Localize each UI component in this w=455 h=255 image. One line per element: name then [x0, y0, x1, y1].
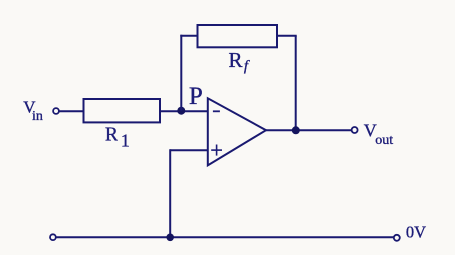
wire R1 to op-amp inverting input [160, 110, 208, 112]
svg-text:R: R [105, 124, 118, 145]
resistor R1 [84, 99, 161, 122]
wire op-amp output to Vout [265, 129, 352, 131]
resistor Rf [198, 25, 278, 47]
node Vin label [23, 98, 43, 124]
label Rf [229, 48, 250, 75]
op-amp U1 [208, 98, 266, 165]
0V rail junction dot [166, 234, 174, 242]
svg-text:R: R [229, 48, 243, 72]
wire non-inverting input down to 0V rail [169, 149, 171, 237]
svg-text:1: 1 [121, 131, 130, 151]
terminal Vin [53, 108, 59, 114]
svg-text:in: in [32, 109, 43, 124]
node P junction dot [177, 107, 185, 115]
0V rail right terminal [394, 235, 400, 241]
label R1 [105, 124, 130, 150]
svg-text:f: f [244, 59, 250, 75]
wire op-amp non-inverting input [170, 149, 208, 151]
node Vout label [364, 120, 394, 148]
wire node P up to Rf [180, 35, 182, 111]
svg-text:out: out [375, 133, 393, 148]
svg-text:0V: 0V [406, 222, 426, 241]
wire Rf right down to output node [295, 36, 297, 131]
output junction dot [292, 126, 300, 134]
wire stub from Rf right [277, 35, 297, 37]
wire stub to Rf left [180, 35, 197, 37]
svg-text:P: P [189, 83, 203, 110]
0V rail left terminal [50, 234, 56, 240]
0V rail wire [56, 236, 394, 238]
terminal Vout [352, 127, 358, 133]
wire Vin to R1 [59, 110, 84, 112]
